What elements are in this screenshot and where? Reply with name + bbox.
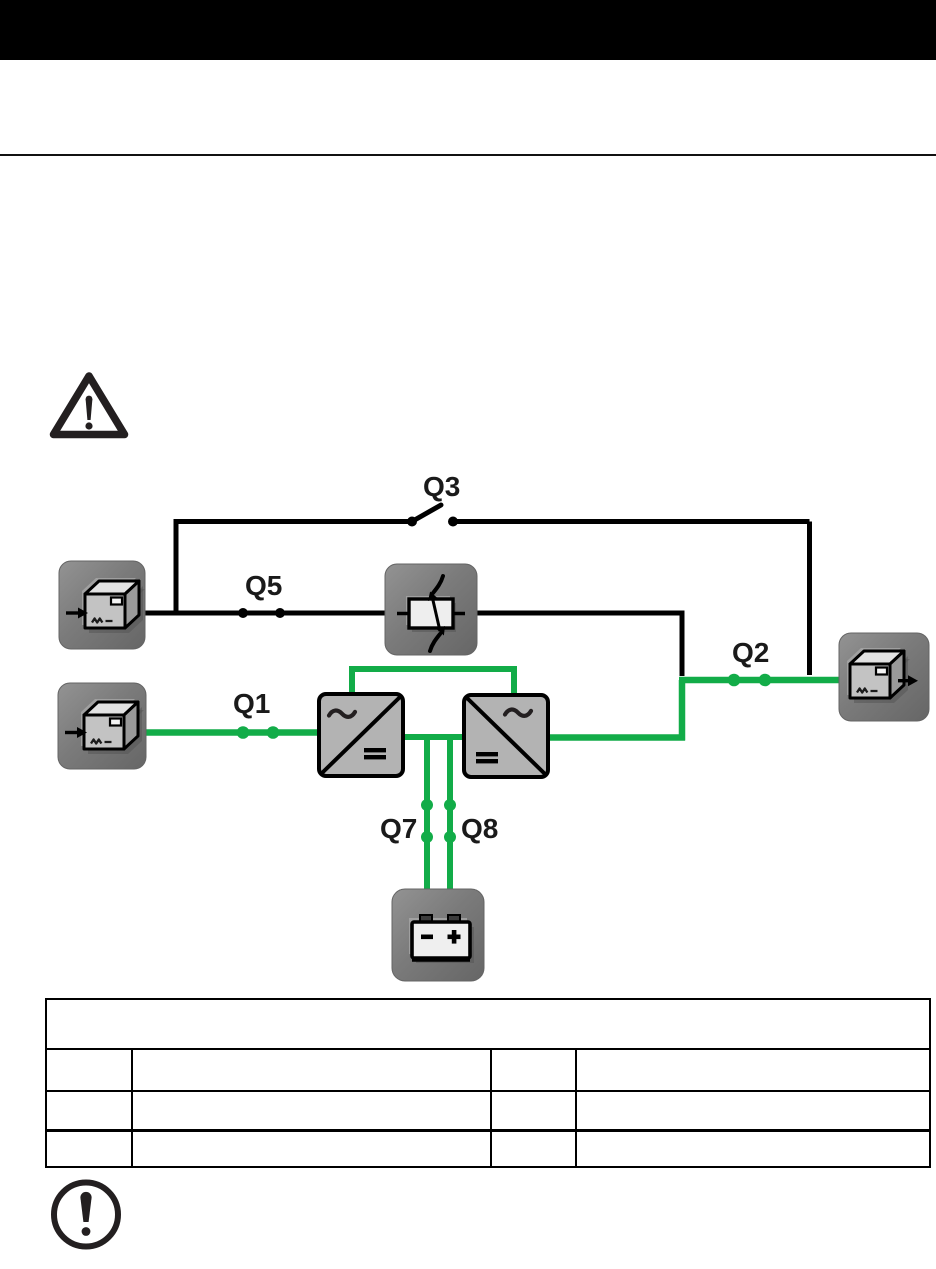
switch Q3 left contact dot [407,517,417,527]
wire: bypass output to junction, down [476,611,682,677]
wire: green DC link rectifier to inverter [404,734,463,740]
switch Q3 right contact dot [448,517,458,527]
table column divider 3 [575,1048,577,1168]
wire: green battery leg Q7 [424,737,430,890]
static bypass switch button [385,564,477,655]
wire: left vertical riser to Q3 [174,519,179,613]
switch Q3 open blade [412,505,441,522]
table column divider 2 [490,1048,492,1168]
wire: Q3 bypass top horizontal (left segment) [176,519,410,524]
load output button (right) [839,633,929,721]
switch Q2 right contact dot [759,674,772,687]
switch Q5 left contact dot [238,608,248,618]
wire: Q3 top horizontal (right segment) [453,519,810,524]
warning triangle icon [54,376,125,435]
switch Q1 right contact dot [267,726,280,739]
table column divider 1 [131,1048,133,1168]
note exclamation circle icon [54,1183,118,1247]
svg-text:Q1: Q1 [233,688,270,719]
table header row divider [45,1048,931,1050]
table outer border [45,998,931,1168]
wire: green top loop rectifier to inverter [352,669,514,694]
header black bar [0,0,936,60]
wire: green battery leg Q8 [447,737,453,890]
svg-text:Q7: Q7 [380,813,417,844]
header rule line [0,154,936,156]
svg-text:Q3: Q3 [423,471,460,502]
wire: green inverter output, up and right through Q2 to load [549,734,685,741]
wire: green mains input through Q1 to rectifier [145,729,319,736]
switch Q8 contact dots [444,799,456,811]
svg-text:Q8: Q8 [461,813,498,844]
switch Q7 contact dots [421,799,433,811]
svg-text:Q5: Q5 [245,570,282,601]
switch Q1 left contact dot [237,726,250,739]
wire: right vertical from Q3 down to output [807,522,812,676]
battery button [392,889,484,981]
wire: bypass input horizontal through Q5 [144,611,386,616]
switch Q2 left contact dot [728,674,741,687]
mains input button (top left) [59,561,145,649]
mains input button (bottom left) [58,683,146,769]
switch Q5 right contact dot [275,608,285,618]
svg-text:Q2: Q2 [732,637,769,668]
inverter U2 [464,695,548,777]
table row divider 2 [45,1090,931,1092]
rectifier U1 [319,694,403,776]
table row divider 3 (thick) [45,1129,931,1132]
